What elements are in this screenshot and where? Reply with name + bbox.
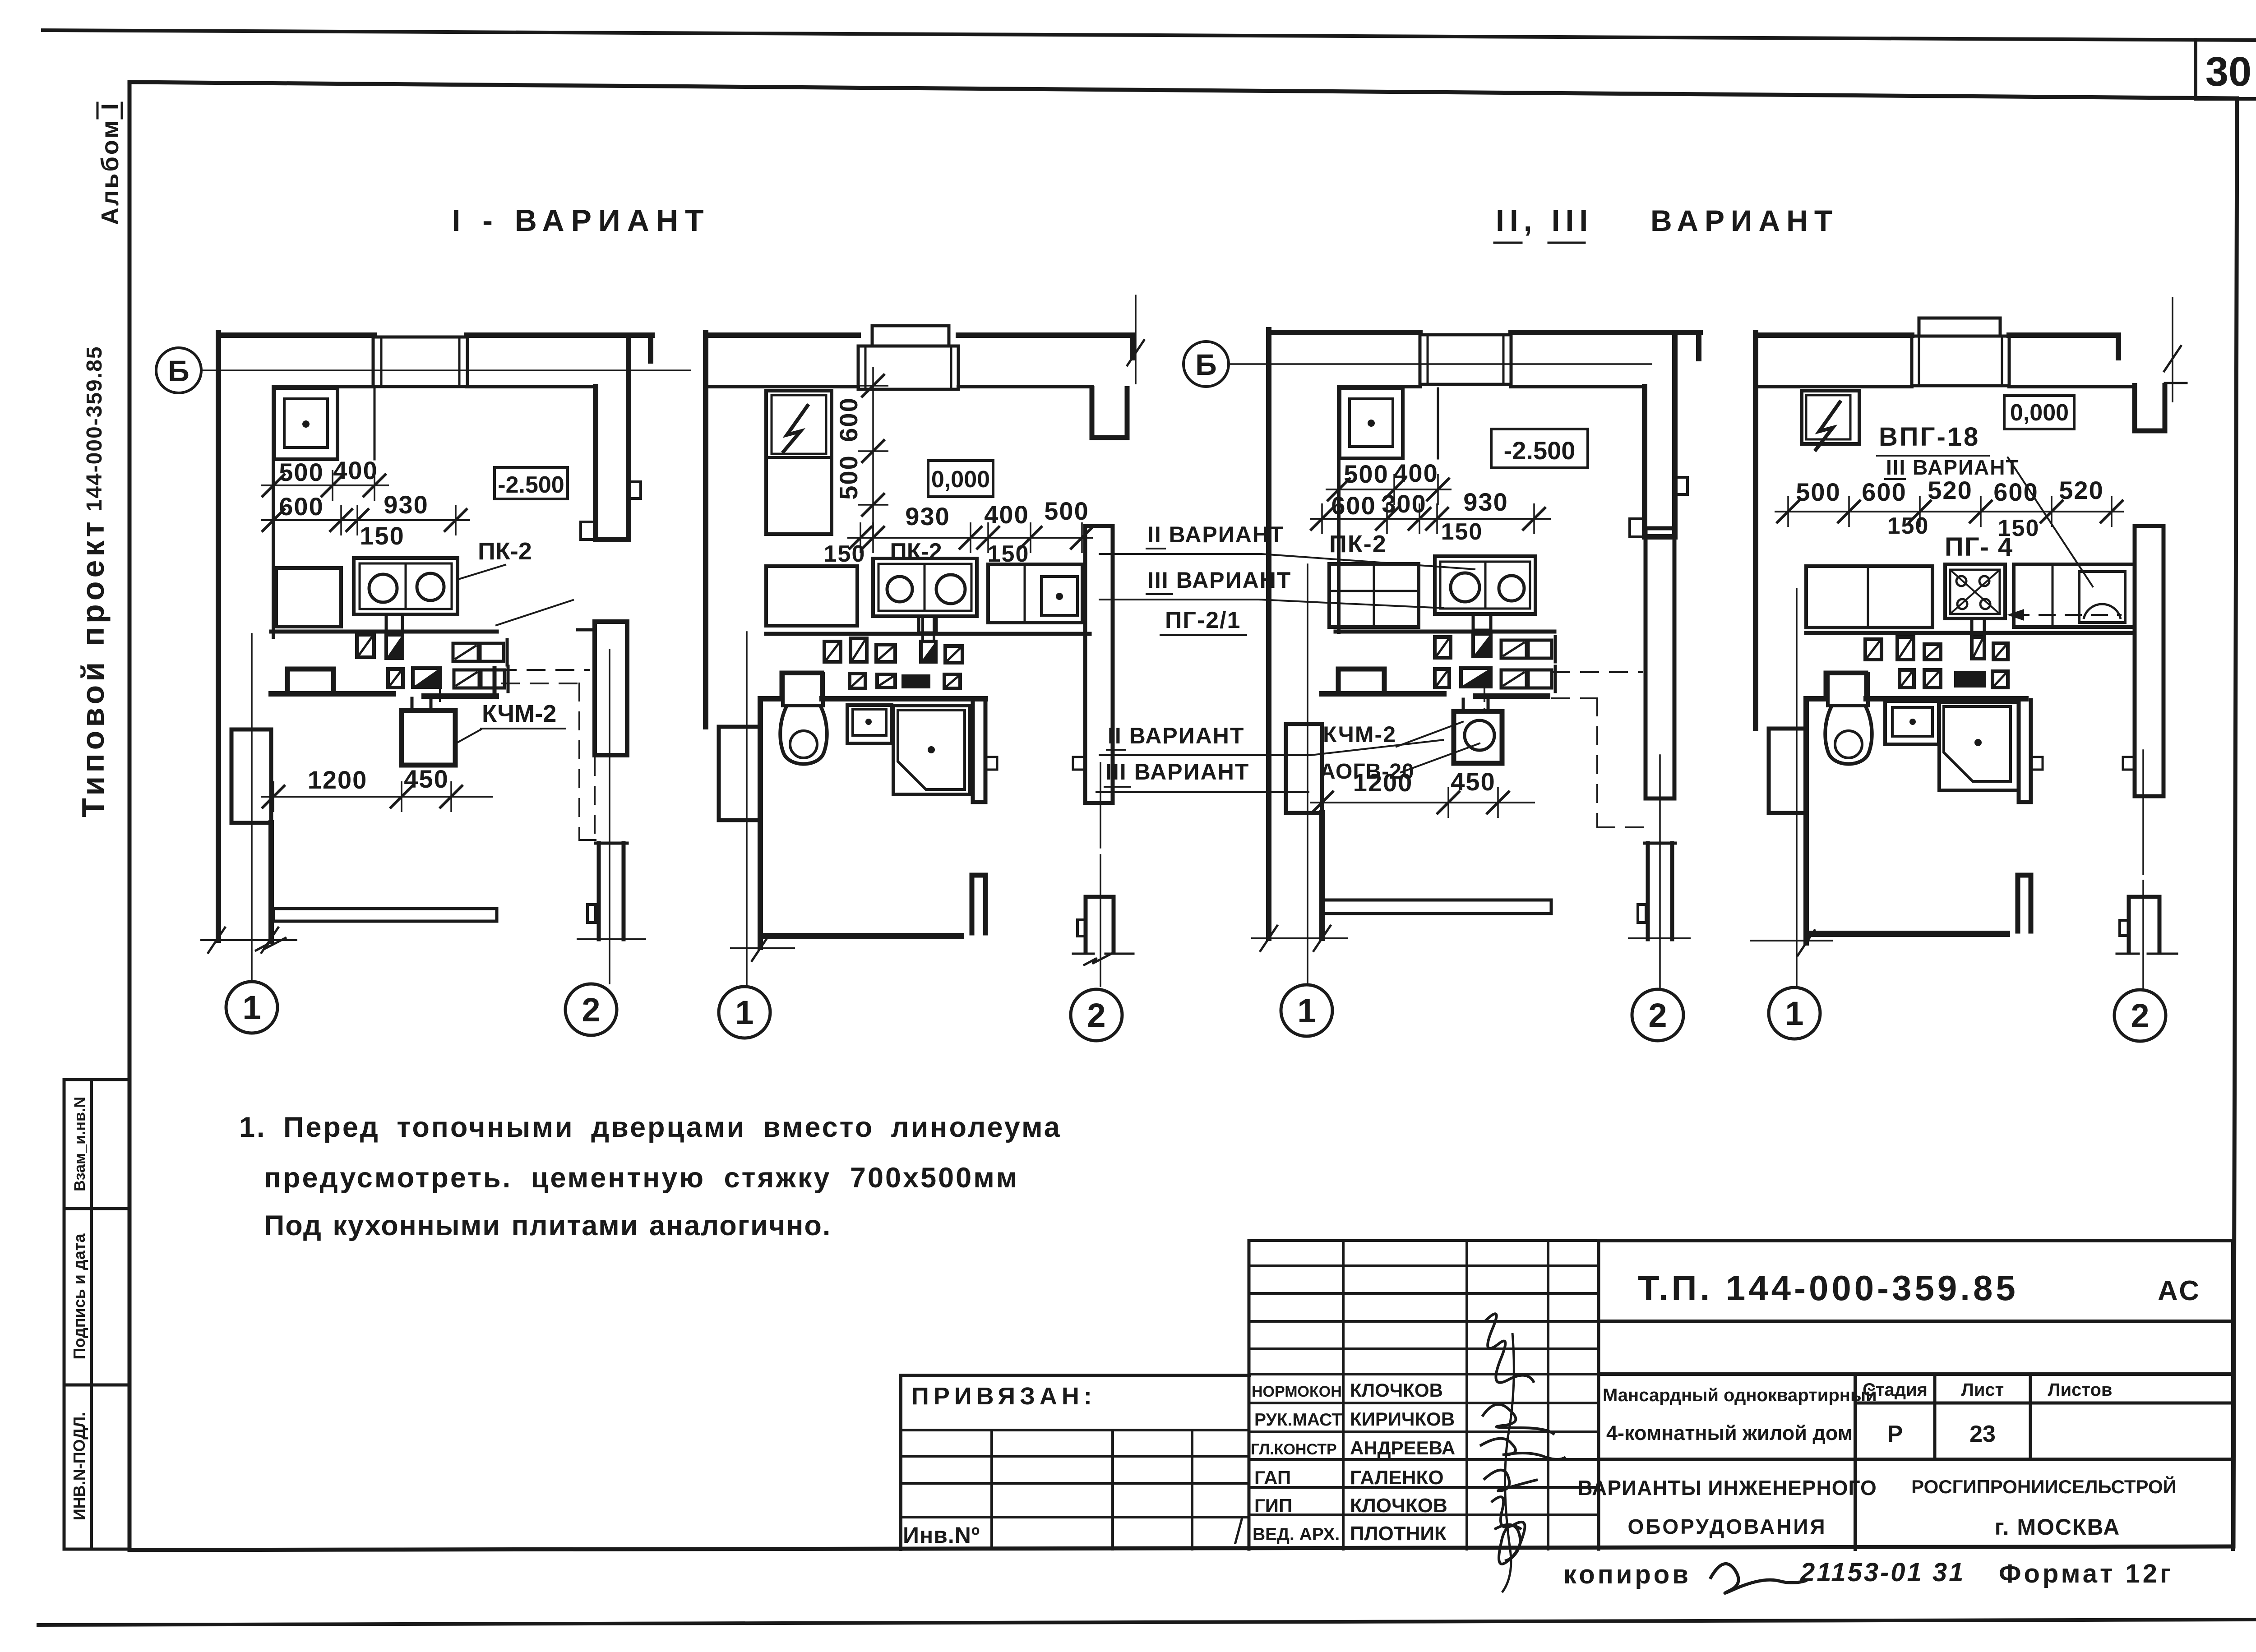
svg-text:600: 600 <box>1993 478 2038 506</box>
svg-text:930: 930 <box>905 502 950 531</box>
plan4 top wall <box>1756 332 1912 338</box>
plan1 top wall right segment <box>467 332 652 338</box>
svg-text:1: 1 <box>735 994 754 1031</box>
plan1 boiler KChM-2 <box>402 711 455 765</box>
svg-text:Под кухонными плитами ана: Под кухонными плитами аналогично. <box>264 1210 831 1241</box>
plan3 boiler with circle <box>1454 711 1502 763</box>
plan1 kitchen inner walls <box>593 387 598 540</box>
svg-text:ВЕД. АРХ.: ВЕД. АРХ. <box>1253 1525 1340 1544</box>
plan3 axis circle 1 <box>1281 985 1332 1036</box>
plan1 boiler flue stubs <box>411 698 414 711</box>
svg-text:ПРИВЯЗАН:: ПРИВЯЗАН: <box>911 1383 1096 1410</box>
svg-text:600: 600 <box>834 397 863 442</box>
svg-text:III ВАРИАНТ: III ВАРИАНТ <box>1105 759 1249 784</box>
plan3 kitchen inner walls <box>1642 387 1647 537</box>
plan1 right shaft wall <box>595 622 627 755</box>
svg-text:600: 600 <box>279 492 324 521</box>
svg-text:предусмотреть. цементную стя: предусмотреть. цементную стяжку 700х500м… <box>264 1162 1019 1194</box>
svg-text:600: 600 <box>1331 491 1376 520</box>
svg-text:Инв.Nº: Инв.Nº <box>903 1523 980 1548</box>
plan1 axis line 2 <box>609 650 610 983</box>
plan4 top-right wall notch <box>2116 335 2121 358</box>
svg-text:23: 23 <box>1969 1421 1996 1447</box>
plan4 gas line dashed with arrow <box>2013 614 2121 616</box>
plan3 vents row1 <box>1435 637 1451 658</box>
svg-text:2: 2 <box>582 991 600 1029</box>
plan2 vertical dim 600 500 <box>872 368 874 538</box>
plan2 wall break line right <box>1135 295 1137 383</box>
svg-text:Лист: Лист <box>1961 1380 2004 1400</box>
svg-text:-2.500: -2.500 <box>498 472 564 498</box>
plan3 level mark -2.500 <box>1491 429 1588 468</box>
plan4 right shaft wall <box>2135 526 2164 796</box>
plan2 counter bottom line <box>766 632 1090 636</box>
plan2 vents row2 <box>850 674 865 688</box>
plan1 level mark -2.500 <box>495 467 568 499</box>
svg-text:520: 520 <box>2059 476 2103 504</box>
plan4 gas stove PG-4 <box>1945 564 2005 618</box>
plan3 lower left wall <box>1319 813 1325 938</box>
plan2 dim row 930 400 500 <box>848 537 1092 539</box>
svg-text:450: 450 <box>404 765 448 793</box>
plan2 left counter <box>766 566 857 626</box>
plan2 right counter with sink <box>988 564 1082 623</box>
svg-text:Подпись и дата: Подпись и дата <box>70 1233 88 1360</box>
svg-text:Типовой проект: Типовой проект <box>75 518 111 817</box>
plan3 dim row 600 300 930 150 <box>1311 518 1550 520</box>
svg-text:2: 2 <box>1648 997 1667 1034</box>
plan4 lower left wall <box>1803 699 1809 943</box>
plan4 counter bottom line <box>1806 631 2135 635</box>
sheet outer border top <box>43 30 2256 40</box>
plan3 dim row 1200 450 <box>1311 802 1534 803</box>
plan2 axis circle 2 <box>1071 989 1122 1041</box>
svg-text:РУК.МАСТ: РУК.МАСТ <box>1254 1410 1342 1430</box>
plan1 axis line 1 <box>251 634 253 982</box>
plan4 vents row1 <box>1865 639 1882 660</box>
privyazan table <box>901 1374 1249 1377</box>
plan1 dim row 500 400 <box>262 485 388 486</box>
plan1 axis B circle <box>156 348 201 393</box>
plan1 window <box>373 337 467 387</box>
plan1 lower right wall <box>596 842 627 845</box>
svg-text:400: 400 <box>984 500 1029 529</box>
svg-text:1: 1 <box>1785 995 1803 1032</box>
svg-text:ГЛ.КОНСТР: ГЛ.КОНСТР <box>1251 1441 1337 1458</box>
svg-text:600: 600 <box>1862 478 1906 506</box>
margin stamp boxes <box>64 1080 129 1549</box>
plan4 bottom wall <box>1809 931 2007 937</box>
plan3 axis circle 2 <box>1632 989 1683 1041</box>
svg-text:400: 400 <box>1393 459 1438 487</box>
plan3 window <box>1420 335 1511 384</box>
plan4 left counter <box>1806 566 1932 628</box>
plan4 axis circle 1 <box>1769 988 1820 1039</box>
plan4 left wall pier <box>1769 729 1806 813</box>
plan3 left counter <box>1329 564 1419 627</box>
svg-text:ПК-2: ПК-2 <box>1329 531 1387 558</box>
svg-text:II, III: II, III <box>1496 203 1593 238</box>
plan1 kitchen floor line <box>271 630 497 634</box>
svg-text:копиров: копиров <box>1563 1560 1691 1589</box>
plan2 left wall pier <box>719 727 760 820</box>
svg-text:г. МОСКВА: г. МОСКВА <box>1995 1514 2121 1540</box>
plan3 axis line 1 <box>1307 564 1308 984</box>
plan2 top wall <box>706 332 858 338</box>
plan3 left outer wall lower <box>1266 728 1271 938</box>
title block main header grid <box>1599 1239 2233 1242</box>
plan2 kitchen inner lines <box>708 385 858 388</box>
slash mark before ved arch <box>1235 1519 1242 1543</box>
svg-text:КИРИЧКОВ: КИРИЧКОВ <box>1350 1408 1455 1430</box>
svg-text:4-комнатный жилой дом: 4-комнатный жилой дом <box>1606 1421 1853 1444</box>
plan4 electric panel <box>1802 391 1859 444</box>
plan2 washbasin <box>847 705 892 743</box>
svg-text:II ВАРИАНТ: II ВАРИАНТ <box>1147 522 1284 547</box>
plan3 boiler flue stubs <box>1462 699 1465 711</box>
plan1 stove PK-2 <box>354 558 458 614</box>
svg-text:АНДРЕЕВА: АНДРЕЕВА <box>1350 1437 1455 1458</box>
svg-text:ПЛОТНИК: ПЛОТНИК <box>1350 1523 1447 1545</box>
svg-text:Взам_и.нв.N: Взам_и.нв.N <box>71 1097 88 1191</box>
plan2 shower tray <box>893 706 970 794</box>
plan1 counter edge <box>374 388 376 459</box>
plan3 right shaft wall <box>1646 528 1674 798</box>
svg-text:Б: Б <box>168 354 189 388</box>
plan1 sink <box>274 388 337 459</box>
title block signature scribbles <box>1484 1314 1534 1383</box>
svg-text:150: 150 <box>824 541 866 567</box>
plan2 axis circle 1 <box>719 987 770 1038</box>
plan2 bottom wall <box>763 933 961 939</box>
svg-text:150: 150 <box>1887 513 1929 539</box>
plan4 axis line 1 <box>1796 589 1798 987</box>
plan1 ground line left <box>201 939 296 941</box>
plan2 right shaft wall <box>1085 526 1113 803</box>
svg-text:2: 2 <box>1087 997 1105 1034</box>
plan2 axis line 1 <box>746 632 748 986</box>
plan1 dashed duct lines <box>499 669 589 671</box>
plan4 leader to heater <box>2008 457 2093 586</box>
plan4 dim row 500 600 520 600 520 <box>1775 511 2123 512</box>
svg-text:ПГ-2/1: ПГ-2/1 <box>1165 607 1241 633</box>
svg-text:Формат 12г: Формат 12г <box>1999 1559 2173 1588</box>
plan3 axis B circle <box>1183 341 1229 387</box>
plan2 stove PK-2 <box>873 558 977 616</box>
plan4 level mark 0,000 <box>2004 396 2074 429</box>
plan1 bench <box>273 909 497 921</box>
svg-text:150: 150 <box>360 521 404 550</box>
svg-text:1: 1 <box>1297 992 1316 1029</box>
svg-text:ГИП: ГИП <box>1254 1495 1292 1516</box>
svg-text:500: 500 <box>834 455 863 499</box>
title block signature table grid <box>1249 1239 1599 1242</box>
plan1 stove flue stubs <box>386 614 402 632</box>
svg-text:500: 500 <box>1344 460 1388 488</box>
svg-text:Мансардный одноквартирный: Мансардный одноквартирный <box>1603 1385 1877 1405</box>
svg-text:520: 520 <box>1928 476 1972 504</box>
plan3 axis B line <box>1230 363 1651 365</box>
svg-text:1: 1 <box>242 989 261 1026</box>
svg-text:ВАРИАНТЫ ИНЖЕНЕРНОГО: ВАРИАНТЫ ИНЖЕНЕРНОГО <box>1577 1476 1877 1500</box>
svg-text:КЧМ-2: КЧМ-2 <box>482 700 556 727</box>
svg-text:500: 500 <box>279 458 324 486</box>
plan1 axis circle 1 <box>226 982 277 1033</box>
plan4 vents row2 <box>1900 670 1914 688</box>
plan4 bottom right wall corner <box>2016 875 2020 931</box>
svg-text:400: 400 <box>333 456 378 485</box>
plan3 axis line 2 <box>1659 755 1661 990</box>
plan1 bathroom top wall <box>271 691 393 697</box>
plan1 right outer wall with notch <box>626 335 631 540</box>
plan2 axis2 lower parts <box>1100 763 1101 848</box>
svg-text:ВАРИАНТ: ВАРИАНТ <box>1650 204 1839 237</box>
plan4 wall break line right <box>2172 298 2173 401</box>
plan3 top wall <box>1269 330 1420 335</box>
plan4 shower tray <box>1939 702 2019 790</box>
plan3 right outer wall with notch <box>1672 332 1678 537</box>
svg-text:ПГ- 4: ПГ- 4 <box>1945 532 2013 562</box>
plan2 window <box>872 326 949 346</box>
plan2 top-right wall notch <box>1130 335 1135 358</box>
plan2 vents row1 <box>824 641 841 662</box>
svg-text:1200: 1200 <box>308 766 368 794</box>
svg-text:1. Перед топочными дверцами: 1. Перед топочными дверцами вместо линол… <box>239 1112 1062 1143</box>
svg-text:0,000: 0,000 <box>931 466 990 493</box>
plan1 ground line right <box>578 938 645 940</box>
svg-text:-2.500: -2.500 <box>1504 436 1576 465</box>
plan4 stove flue stub <box>1972 618 1984 637</box>
svg-text:450: 450 <box>1451 767 1495 796</box>
plan2 electric panel <box>766 391 832 534</box>
svg-text:2: 2 <box>2131 997 2149 1034</box>
plan2 left outer wall <box>703 332 708 727</box>
svg-text:30: 30 <box>2205 49 2251 95</box>
svg-text:ПК-2: ПК-2 <box>890 539 942 565</box>
svg-text:ГАП: ГАП <box>1254 1467 1291 1488</box>
plan3 left wall pier <box>1286 724 1322 813</box>
plan1 axis B line <box>202 369 690 371</box>
page number box 30 <box>2196 38 2256 99</box>
svg-text:0,000: 0,000 <box>2010 400 2069 426</box>
svg-text:КЛОЧКОВ: КЛОЧКОВ <box>1350 1380 1443 1401</box>
svg-text:21153-01 31: 21153-01 31 <box>1800 1558 1965 1587</box>
plan1 lower left wall <box>268 823 274 941</box>
svg-text:1200: 1200 <box>1353 768 1413 797</box>
svg-text:II ВАРИАНТ: II ВАРИАНТ <box>1108 723 1244 748</box>
plan1 left wall pier <box>231 729 271 823</box>
svg-text:ОБОРУДОВАНИЯ: ОБОРУДОВАНИЯ <box>1627 1515 1826 1538</box>
plan2 level mark 0.000 <box>928 461 993 497</box>
plan3 vents row2 <box>1435 669 1449 688</box>
plan3 bathroom top wall <box>1322 691 1444 697</box>
svg-text:Альбом I: Альбом I <box>97 102 124 225</box>
plan1 left outer wall <box>216 332 221 940</box>
svg-text:500: 500 <box>1044 497 1089 525</box>
plan1 dim row 1200 450 <box>262 796 492 798</box>
svg-text:НОРМОКОН: НОРМОКОН <box>1252 1383 1342 1400</box>
plan4 axis2 lower parts <box>2142 750 2144 874</box>
plan3 counter edge <box>1437 388 1439 458</box>
svg-text:РОСГИПРОНИИСЕЛЬСТРОЙ: РОСГИПРОНИИСЕЛЬСТРОЙ <box>1911 1476 2177 1497</box>
plan3 sink <box>1340 388 1403 458</box>
plan3 dim row 500 400 <box>1327 489 1451 490</box>
plan3 bench <box>1322 900 1551 914</box>
svg-text:АС: АС <box>2158 1275 2201 1306</box>
plan2 lower left wall <box>758 699 763 947</box>
svg-text:Стадия: Стадия <box>1863 1380 1928 1400</box>
svg-text:I - ВАРИАНТ: I - ВАРИАНТ <box>452 203 710 238</box>
svg-text:Т.П. 144-000-359.85: Т.П. 144-000-359.85 <box>1638 1268 2019 1308</box>
plan1 dim row 600 930 150 <box>262 519 469 521</box>
plan1 vents row2 <box>388 669 403 688</box>
plan2 stove flue stub <box>919 616 936 633</box>
plan4 toilet <box>1828 674 1868 706</box>
plan1 duct leader line <box>496 600 573 625</box>
plan3 dashed duct lines <box>1552 671 1642 673</box>
plan3 left outer wall <box>1266 330 1271 728</box>
plan2 bathroom walls <box>760 696 781 701</box>
plan4 washbasin <box>1885 701 1939 744</box>
plan4 axis circle 2 <box>2114 990 2166 1041</box>
svg-text:ГАЛЕНКО: ГАЛЕНКО <box>1350 1467 1444 1489</box>
svg-text:ВПГ-18: ВПГ-18 <box>1879 422 1980 452</box>
plan2 bottom right wall corner <box>970 875 975 933</box>
svg-text:КЧМ-2: КЧМ-2 <box>1323 722 1396 747</box>
plan3 stove PK-2 <box>1435 556 1535 614</box>
svg-text:500: 500 <box>1796 478 1840 506</box>
svg-text:Р: Р <box>1887 1421 1903 1447</box>
plan1 vents row1 <box>357 635 374 657</box>
svg-text:КЛОЧКОВ: КЛОЧКОВ <box>1350 1495 1447 1517</box>
plan2 toilet <box>783 674 823 706</box>
plan4 window <box>1919 318 2000 336</box>
plan3 stove flue stubs <box>1473 614 1491 630</box>
main frame <box>129 82 2237 98</box>
svg-text:300: 300 <box>1382 489 1426 518</box>
sheet outer border bottom <box>38 1620 2256 1625</box>
svg-text:III ВАРИАНТ: III ВАРИАНТ <box>1147 568 1291 593</box>
svg-text:930: 930 <box>1463 488 1508 516</box>
plan4 bathroom walls <box>1806 696 1826 701</box>
plan4 right counter with heater sink <box>2014 564 2135 627</box>
plan1 axis circle 2 <box>565 984 617 1035</box>
svg-text:150: 150 <box>1441 519 1483 545</box>
svg-text:ИНВ.N-ПОДЛ.: ИНВ.N-ПОДЛ. <box>70 1412 88 1520</box>
svg-text:930: 930 <box>384 490 428 519</box>
svg-text:144-000-359.85: 144-000-359.85 <box>83 346 106 512</box>
plan1 base cabinet <box>276 568 341 627</box>
plan3 kitchen floor line <box>1336 630 1554 634</box>
plan1 top wall left segment <box>218 332 374 338</box>
svg-text:Б: Б <box>1195 348 1216 381</box>
svg-text:Листов: Листов <box>2048 1380 2113 1400</box>
plan4 left outer wall <box>1753 332 1758 729</box>
svg-text:ПК-2: ПК-2 <box>478 538 532 565</box>
plan4 kitchen inner lines <box>1758 385 1912 388</box>
